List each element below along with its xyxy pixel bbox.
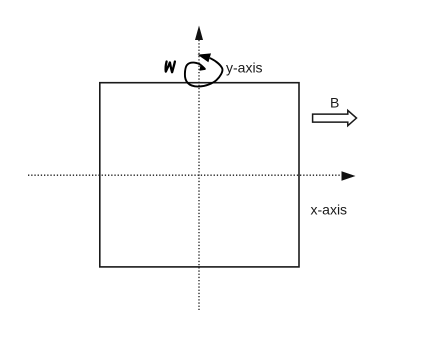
handwritten W (omega, angular velocity) <box>166 62 175 73</box>
rotation arrow small head <box>200 66 206 71</box>
y-axis arrowhead <box>195 26 203 41</box>
square loop <box>100 83 299 267</box>
svg-text:x-axis: x-axis <box>311 202 348 218</box>
y-axis dotted line <box>198 40 200 310</box>
svg-text:y-axis: y-axis <box>226 60 263 76</box>
x-axis arrowhead <box>342 171 356 181</box>
rotation arrow big head <box>198 53 212 62</box>
block arrow B (magnetic field) <box>313 110 357 125</box>
x-axis dotted line <box>28 174 342 176</box>
svg-text:B: B <box>330 95 339 111</box>
rotation loop arrow around y-axis <box>185 58 223 86</box>
